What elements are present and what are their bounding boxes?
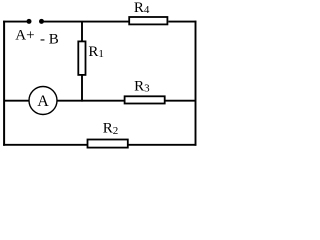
resistor R3 (box) <box>125 96 165 103</box>
svg-text:A+: A+ <box>15 27 34 43</box>
terminal B (dot) <box>39 19 44 24</box>
resistor R4 (box) <box>129 17 167 24</box>
svg-text:R2: R2 <box>103 121 119 137</box>
wire middle-right segment (R3 to right border) <box>165 100 195 102</box>
wire top segment from terminal B to R4 <box>42 21 130 23</box>
terminal A (dot) <box>27 19 32 24</box>
wire bottom segment (R2 to bottom-right corner) <box>128 144 196 146</box>
svg-text:A: A <box>37 93 49 110</box>
wire R1 top lead <box>81 22 83 42</box>
svg-text:- B: - B <box>40 31 59 47</box>
wire top segment from left corner to terminal A <box>3 21 29 23</box>
svg-text:R3: R3 <box>134 78 150 94</box>
wire left border <box>3 21 5 146</box>
ammeter A (circle) <box>29 87 57 115</box>
resistor R2 (box) <box>88 140 128 148</box>
wire middle-left segment (left border to ammeter) <box>4 100 29 102</box>
wire bottom segment (left corner to R2) <box>3 144 87 146</box>
svg-text:R1: R1 <box>88 44 104 60</box>
resistor R1 (box) <box>78 41 85 75</box>
wire top segment from R4 to top-right corner <box>168 21 196 23</box>
svg-text:R4: R4 <box>134 0 150 16</box>
wire middle segment (ammeter to R3, with R1 junction) <box>57 100 124 102</box>
wire right border <box>195 21 197 146</box>
wire R1 bottom lead <box>81 75 83 102</box>
